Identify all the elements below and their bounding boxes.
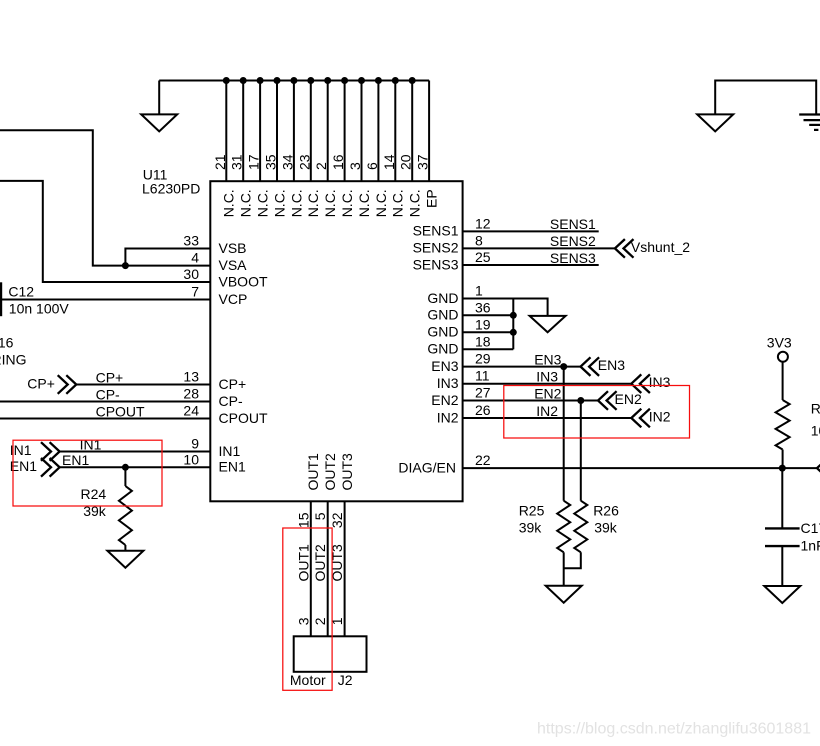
svg-text:CP-: CP- [96,386,120,402]
svg-text:VSA: VSA [219,257,248,273]
wire pin 5 OUT2 to J2 [327,501,329,636]
resistor R26 [574,501,587,553]
junction on bus at pin 16 [341,77,348,84]
chevron EN1 (input arrow) [41,458,60,477]
wire pin 2 (N.C.) vertical [327,81,329,182]
wire pin 24 CPOUT from left edge [0,418,210,420]
wire EN3 junction down to R25 [563,367,565,501]
chevron EN3 (input arrow) [581,357,600,376]
wire pin 4 VSA from left edge [0,130,210,265]
svg-text:EN2: EN2 [534,385,561,401]
wire top-right ground segment [715,81,816,115]
svg-text:R26: R26 [593,503,619,519]
capacitor C12 plate (clipped at edge) [0,282,2,316]
junction node VSB/VSA [122,262,129,269]
svg-text:30: 30 [183,266,199,282]
svg-text:CPOUT: CPOUT [219,410,268,426]
wire pin 14 (N.C.) vertical [394,81,396,182]
svg-text:2: 2 [312,617,328,625]
svg-text:SENS3: SENS3 [413,256,459,272]
junction node EN1/R24 [122,464,129,471]
wire pin 22 DIAG/EN [463,467,817,469]
svg-text:Motor: Motor [290,672,326,688]
svg-text:10: 10 [183,451,199,467]
chevron DIAG/EN (clipped at right edge) [817,459,820,478]
svg-text:OUT2: OUT2 [322,453,338,491]
svg-text:4: 4 [191,250,199,266]
svg-text:IN3: IN3 [437,375,459,391]
junction on bus at pin 34 [290,77,297,84]
wire pin 27 EN2 [463,400,598,402]
wire top N.C. bus [159,80,429,82]
svg-text:VBOOT: VBOOT [219,273,268,289]
svg-text:17: 17 [246,154,262,170]
svg-text:SENS1: SENS1 [413,223,459,239]
junction on bus at pin 20 [409,77,416,84]
wire C17 to ground [781,546,783,586]
junction on bus at pin 6 [375,77,382,84]
wire pin 18 GND [463,348,514,350]
wire pin 13 CP+ [76,384,210,386]
junction on bus at pin 31 [240,77,247,84]
junction node EN3/R25 [560,363,567,370]
svg-text:N.C.: N.C. [305,189,321,217]
svg-text:11: 11 [475,368,490,384]
wire pin 32 OUT3 to J2 [344,501,346,636]
earth ground (right edge) [799,115,820,130]
svg-text:J2: J2 [338,672,353,688]
svg-text:3: 3 [295,617,311,625]
svg-text:35: 35 [263,154,279,170]
wire pin 15 OUT1 to J2 [310,501,312,636]
svg-text:DIAG/EN: DIAG/EN [398,459,456,475]
capacitor C17 bottom plate [765,545,800,547]
svg-text:10n 100V: 10n 100V [9,300,70,316]
wire 3V3 to R27 [782,362,784,400]
wire pin 16 (N.C.) vertical [344,81,346,182]
svg-text:39k: 39k [594,520,618,536]
wire pin 28 CP- from left edge [0,401,210,403]
junction on bus at pin 35 [274,77,281,84]
wire pin 19 GND [463,331,514,333]
wire pin 10 EN1 [60,466,211,468]
svg-text:7: 7 [191,284,199,300]
svg-text:18: 18 [475,333,491,349]
svg-text:36: 36 [475,299,491,315]
red highlight box (EN2/IN2) [504,386,690,439]
svg-text:N.C.: N.C. [255,189,271,217]
svg-text:SENS3: SENS3 [550,250,596,266]
svg-text:15: 15 [295,512,311,528]
svg-text:33: 33 [183,233,199,249]
svg-text:37: 37 [415,154,431,170]
svg-text:26: 26 [475,402,491,418]
wire pin 29 EN3 [463,366,581,368]
svg-text:2: 2 [313,162,329,170]
wire pin 8 SENS2 [463,247,615,249]
svg-text:22: 22 [475,452,491,468]
svg-text:20: 20 [398,154,414,170]
svg-text:IN1: IN1 [80,436,102,452]
svg-text:EN1: EN1 [219,459,246,475]
svg-text:OUT1: OUT1 [305,453,321,491]
junction node GND19 [510,329,517,336]
svg-text:IN2: IN2 [437,409,459,425]
svg-text:R27: R27 [811,401,820,417]
svg-text:1: 1 [475,283,483,299]
chevron Vshunt_2 (output arrow) [615,239,634,258]
wire pin 36 GND [463,314,514,316]
svg-text:GND: GND [427,307,458,323]
wire pin 37 (EP) vertical [428,81,430,182]
chevron IN3 (input arrow) [631,374,650,393]
svg-text:CP+: CP+ [27,376,55,392]
svg-text:CPOUT: CPOUT [96,403,145,419]
svg-text:3V3: 3V3 [767,334,792,350]
junction node EN2/R26 [577,397,584,404]
svg-text:IN3: IN3 [536,369,558,385]
chevron CP+ (input arrow) [58,375,77,394]
svg-text:SENS1: SENS1 [550,216,596,232]
chevron IN2 (input arrow) [631,409,650,428]
svg-text:OUT3: OUT3 [339,453,355,491]
wire EN1 to R24 [124,467,126,486]
junction node GND36 [510,312,517,319]
svg-text:N.C.: N.C. [373,189,389,217]
ground (top-left, arrow style) [141,81,177,132]
junction on bus at pin 14 [392,77,399,84]
svg-text:28: 28 [183,386,199,402]
svg-text:Vshunt_2: Vshunt_2 [631,239,690,255]
svg-text:CP+: CP+ [96,369,124,385]
junction on bus at pin 2 [324,77,331,84]
svg-text:N.C.: N.C. [339,189,355,217]
junction on bus at pin 17 [257,77,264,84]
svg-text:EP: EP [424,189,440,208]
svg-text:VSB: VSB [219,240,247,256]
wire R26 bottom joins R25 [564,552,581,568]
svg-text:3: 3 [347,162,363,170]
wire pin 21 (N.C.) vertical [225,81,227,182]
svg-text:25: 25 [475,249,491,265]
svg-text:N.C.: N.C. [221,189,237,217]
wire pin 26 IN2 [463,417,632,419]
wire pin 1 GND to ground [463,299,548,316]
svg-text:13: 13 [183,369,199,385]
svg-text:6: 6 [364,162,380,170]
capacitor C17 top plate [765,527,800,529]
svg-text:1nF: 1nF [801,538,820,554]
svg-text:IN2: IN2 [536,403,558,419]
wire pin 6 (N.C.) vertical [377,81,379,182]
svg-text:N.C.: N.C. [356,189,372,217]
connector J2 body [294,636,367,672]
wire pin 17 (N.C.) vertical [259,81,261,182]
wire pin 23 (N.C.) vertical [310,81,312,182]
svg-text:16: 16 [0,334,14,350]
svg-text:C12: C12 [8,283,34,299]
svg-text:32: 32 [329,512,345,528]
resistor R25 [557,501,570,553]
wire R27 to DIAG/EN node [782,450,784,469]
svg-text:23: 23 [296,154,312,170]
svg-text:IN3: IN3 [649,374,671,390]
wire pin 3 (N.C.) vertical [361,81,363,182]
wire pin 9 IN1 [60,451,211,453]
wire pin 12 SENS1 [463,230,599,232]
svg-text:R25: R25 [519,503,545,519]
ground (right cluster) [530,316,566,332]
red highlight box (IN1/EN1/R24) [13,440,162,506]
svg-text:N.C.: N.C. [390,189,406,217]
svg-text:N.C.: N.C. [271,189,287,217]
wire pin 11 IN3 [463,383,632,385]
svg-text:L6230PD: L6230PD [142,180,200,196]
wire pin 35 (N.C.) vertical [276,81,278,182]
wire pin 20 (N.C.) vertical [411,81,413,182]
svg-text:24: 24 [183,403,199,419]
wire node down to C17 [781,468,783,528]
svg-text:EN2: EN2 [615,391,642,407]
wire pin 34 (N.C.) vertical [293,81,295,182]
svg-text:OUT2: OUT2 [312,544,328,582]
IC U11 body [210,181,462,501]
ground (below C17) [764,586,800,603]
resistor R24 [119,486,132,545]
svg-text:N.C.: N.C. [407,189,423,217]
svg-text:12: 12 [475,215,491,231]
svg-text:GND: GND [427,290,458,306]
wire R25 to ground [563,552,565,585]
ground (top-right, arrow style) [697,114,733,131]
svg-text:RING: RING [0,352,27,368]
svg-text:8: 8 [475,232,483,248]
wire pin 30 VBOOT from left edge [0,181,210,282]
ground (below R24) [107,551,143,568]
wire GND collector vertical [512,299,514,350]
svg-text:100k: 100k [811,422,820,438]
chevron IN1 (input arrow) [41,442,60,461]
svg-text:EN1: EN1 [62,452,89,468]
svg-text:IN2: IN2 [649,409,671,425]
svg-text:R24: R24 [81,486,107,502]
svg-text:31: 31 [229,154,245,170]
junction on bus at pin 23 [307,77,314,84]
svg-text:5: 5 [312,512,328,520]
svg-text:19: 19 [475,316,491,332]
chevron EN2 (input arrow) [598,391,617,410]
svg-text:C17: C17 [801,520,820,536]
svg-text:29: 29 [475,351,491,367]
wire pin 31 (N.C.) vertical [242,81,244,182]
wire pin 7 VCP from left edge [0,299,210,301]
wire EN2 junction down to R26 [580,401,582,501]
power symbol 3V3 circle [778,352,788,362]
svg-text:OUT1: OUT1 [295,544,311,582]
svg-text:CP-: CP- [219,393,243,409]
svg-text:VCP: VCP [219,291,248,307]
junction on bus at pin 21 [223,77,230,84]
svg-text:GND: GND [427,324,458,340]
svg-text:39k: 39k [519,520,543,536]
wire pin 25 SENS3 [463,264,599,266]
junction on bus at pin 3 [358,77,365,84]
svg-text:SENS2: SENS2 [550,233,596,249]
svg-text:14: 14 [381,154,397,170]
svg-text:27: 27 [475,385,491,401]
wire R24 to ground [124,545,126,551]
svg-text:https://blog.csdn.net/zhanglif: https://blog.csdn.net/zhanglifu3601881 [537,721,811,738]
svg-text:16: 16 [330,154,346,170]
ground (below R25/R26) [546,586,582,603]
svg-text:IN1: IN1 [219,443,241,459]
svg-text:EN3: EN3 [534,351,561,367]
svg-text:EN1: EN1 [10,458,37,474]
resistor R27 (clipped label) [776,400,790,450]
svg-text:EN3: EN3 [431,358,458,374]
svg-text:9: 9 [191,436,199,452]
junction node DIAG/EN / R27 / C17 [779,465,786,472]
svg-text:CP+: CP+ [219,376,247,392]
svg-text:EN3: EN3 [598,357,625,373]
svg-text:N.C.: N.C. [288,189,304,217]
svg-text:GND: GND [427,341,458,357]
wire pin 33 VSB [125,249,210,266]
red highlight box (OUT1/OUT2/Motor) [283,528,332,690]
svg-text:EN2: EN2 [431,392,458,408]
svg-text:21: 21 [212,154,228,170]
svg-text:N.C.: N.C. [322,189,338,217]
svg-text:N.C.: N.C. [238,189,254,217]
svg-text:SENS2: SENS2 [413,240,459,256]
svg-text:34: 34 [279,154,295,170]
